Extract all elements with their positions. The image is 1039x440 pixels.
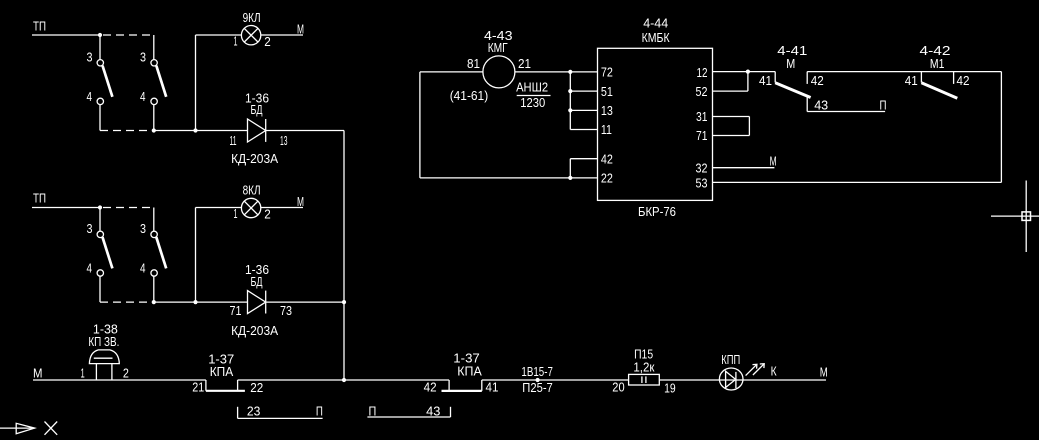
svg-text:ТП: ТП (33, 19, 46, 34)
svg-text:41: 41 (486, 379, 499, 394)
svg-text:П: П (880, 97, 887, 112)
contact 4-41 blade (775, 83, 810, 98)
wire lamp 9КЛ right lead to М (261, 34, 303, 36)
wire bottom contact to diode block2 (154, 301, 248, 303)
svg-text:81: 81 (467, 56, 480, 71)
svg-text:72: 72 (601, 65, 613, 80)
wire lamp 8КЛ right lead to М (261, 207, 303, 209)
svg-text:М: М (297, 194, 304, 209)
svg-text:М: М (297, 21, 304, 36)
wire contact S2 bottom lead (153, 105, 155, 131)
junction dot pin 72 (568, 70, 572, 74)
svg-text:КД-203А: КД-203А (231, 151, 278, 166)
svg-text:51: 51 (601, 84, 613, 99)
svg-text:4: 4 (140, 261, 146, 276)
wire terminal 43 tick (450, 407, 452, 417)
svg-text:1: 1 (234, 206, 238, 221)
svg-text:АНШ2: АНШ2 (516, 80, 548, 95)
svg-text:13: 13 (601, 103, 613, 118)
svg-text:БКР-76: БКР-76 (638, 204, 676, 219)
junction dot lamp branch bottom block2 (193, 300, 197, 304)
svg-text:БД: БД (251, 102, 263, 117)
svg-text:М: М (820, 365, 828, 380)
svg-text:БД: БД (251, 274, 263, 289)
wire dashed bottom between contacts block2 (100, 301, 151, 303)
svg-text:19: 19 (664, 380, 676, 395)
wire bottom contact to lamp branch node (154, 130, 248, 132)
svg-text:М1: М1 (930, 56, 945, 71)
junction dot node ТП1 (98, 33, 102, 37)
contact 4-42 terminal 41 tick (920, 72, 922, 83)
svg-text:(41-61): (41-61) (450, 88, 489, 103)
contact S2 terminal 4 circle (151, 98, 157, 104)
contact S1 blade (103, 66, 113, 97)
svg-text:2: 2 (123, 366, 129, 381)
svg-text:8КЛ: 8КЛ (243, 183, 261, 198)
contact S4 blade (156, 237, 166, 268)
svg-text:20: 20 (612, 380, 624, 395)
wire lamp 9КЛ left lead (196, 34, 242, 36)
wire top tie 42(4-41) to 42(4-42) (807, 71, 1001, 73)
svg-text:1,2к: 1,2к (633, 359, 654, 374)
contact КПА2 terminal 41 tick (481, 380, 483, 391)
wire 43 to П (807, 111, 885, 113)
contact S4 terminal 3 circle (151, 231, 157, 237)
svg-text:1: 1 (234, 33, 238, 48)
svg-text:22: 22 (601, 171, 613, 186)
svg-text:2: 2 (264, 34, 271, 49)
wire pin 53 long wire (713, 181, 1002, 183)
svg-text:41: 41 (759, 73, 772, 88)
svg-text:КП ЗВ.: КП ЗВ. (88, 334, 119, 349)
wire bottom bus segment 4 (659, 379, 826, 381)
cursor crosshair horizontal (991, 215, 1039, 217)
contact S4 terminal 4 circle (151, 270, 157, 276)
svg-text:КПА: КПА (457, 364, 482, 379)
contact 4-42 blade (921, 83, 957, 99)
wire dashed bottom between contacts block1 (100, 130, 151, 132)
svg-text:22: 22 (250, 380, 263, 395)
wire right vertical bus (x=344) upper (343, 131, 345, 303)
bell КП ЗВ right leg (111, 364, 113, 380)
svg-text:ТП: ТП (33, 191, 46, 206)
wire lamp 8КЛ branch vertical (195, 208, 197, 303)
svg-text:3: 3 (87, 221, 93, 236)
wire pin 11 stub (570, 129, 597, 131)
contact S1 terminal 4 circle (97, 98, 103, 104)
svg-text:21: 21 (518, 56, 531, 71)
contact S3 blade (103, 237, 113, 268)
wire right vertical bus (x=344) lower (343, 302, 345, 380)
contact КПА1 terminal 22 tick (237, 380, 239, 391)
contact S1 terminal 3 circle (97, 60, 103, 66)
svg-text:21: 21 (192, 379, 204, 394)
contact КПА1 bridge bar (206, 390, 245, 392)
diode БД1 КД-203А (248, 119, 266, 142)
wire pin 13 stub (570, 109, 597, 111)
svg-text:42: 42 (811, 73, 824, 88)
junction dot pin 12 branch (746, 70, 750, 74)
wire П to 43 (367, 416, 450, 418)
wire КМГ loop bottom to pin 22 (420, 177, 570, 179)
svg-text:43: 43 (426, 404, 440, 419)
junction dot bus at x=344 (342, 378, 346, 382)
svg-text:31: 31 (696, 109, 708, 124)
resistor П15 power mark (641, 376, 643, 383)
svg-text:32: 32 (696, 160, 708, 175)
wire left pin tie vertical (72-51-13-11) (569, 72, 571, 130)
wire ТП row 2 (32, 207, 100, 209)
wire bottom bus segment 3 (482, 379, 629, 381)
svg-text:1230: 1230 (520, 95, 545, 110)
svg-text:3: 3 (87, 50, 93, 65)
svg-text:П25-7: П25-7 (522, 380, 553, 395)
svg-text:71: 71 (230, 303, 242, 318)
wire pin 31 stub (713, 116, 750, 118)
svg-text:11: 11 (230, 133, 237, 148)
svg-text:4: 4 (140, 89, 146, 104)
wire contact S2 top lead (153, 35, 155, 60)
contact 4-41 terminal 42 tick (806, 72, 808, 84)
junction dot bus at 1В15-7 (536, 378, 540, 382)
contact S3 terminal 4 circle (97, 270, 103, 276)
wire pin tie vertical (42-22) (569, 159, 571, 178)
svg-text:42: 42 (424, 379, 437, 394)
wire КМГ loop left vertical (419, 72, 421, 178)
svg-text:4-44: 4-44 (643, 16, 668, 31)
wire pin 12/52 tie vertical (747, 72, 749, 92)
wire КМГ 81 left lead (420, 71, 483, 73)
wire contact S3 top lead (99, 208, 101, 232)
junction dot bottom contact block2 (152, 300, 156, 304)
wire pin 71 stub (713, 135, 750, 137)
wire bottom bus segment 2 (238, 379, 450, 381)
svg-text:3: 3 (140, 221, 146, 236)
wire contact S4 top lead (153, 208, 155, 232)
relay coil КМГ circle (483, 56, 515, 88)
junction dot pin 51 (568, 89, 572, 93)
junction dot bottom contact block1 (152, 128, 156, 132)
wire diode БД2 cathode to right vertical (266, 301, 344, 303)
svg-text:М: М (770, 153, 777, 168)
wire contact S1 bottom lead (99, 105, 101, 131)
fraction bar АНШ2/1230 (517, 95, 551, 97)
svg-text:КМГ: КМГ (488, 40, 508, 55)
svg-text:23: 23 (247, 404, 261, 419)
wire bottom bus segment 1 (33, 379, 206, 381)
svg-text:3: 3 (140, 50, 146, 65)
wire КМГ 21 right lead to box (515, 71, 598, 73)
junction dot lamp branch bottom block1 (193, 128, 197, 132)
contact 4-41 terminal 43 tick (806, 98, 808, 112)
svg-text:П: П (316, 404, 323, 419)
junction dot diode2 row at vertical (342, 300, 346, 304)
svg-text:М: М (786, 56, 795, 71)
wire pin 31/71 tie vertical (748, 117, 750, 136)
resistor П15 body (629, 374, 660, 385)
svg-text:13: 13 (280, 133, 288, 148)
svg-text:12: 12 (697, 65, 708, 80)
contact КПА1 terminal 21 tick (205, 380, 207, 391)
svg-text:КПА: КПА (210, 364, 234, 379)
svg-text:4: 4 (87, 261, 93, 276)
svg-text:71: 71 (696, 128, 708, 143)
wire pin 32 stub to М (713, 167, 775, 169)
LED КПП diode triangle (726, 371, 736, 387)
wire dashed ТП2 to contact 2 (103, 207, 154, 209)
LED КПП arrow 2 (753, 364, 764, 375)
block БКР-76 body (598, 48, 713, 200)
cursor crosshair vertical (1025, 181, 1027, 253)
wire pin 52 stub (713, 90, 748, 92)
LED КПП arrow 1 (746, 365, 757, 376)
svg-text:41: 41 (905, 73, 918, 88)
bell КП ЗВ left leg (95, 364, 97, 380)
svg-text:11: 11 (601, 122, 612, 137)
junction dot pin 22 (568, 176, 572, 180)
svg-text:КМБК: КМБК (642, 30, 670, 45)
junction dot node ТП2 (98, 205, 102, 209)
contact 4-42 terminal 42 tick (953, 72, 955, 84)
wire 23 to П (238, 417, 323, 419)
wire ТП row 1 (32, 34, 100, 36)
wire diode БД1 cathode to right vertical (266, 130, 344, 132)
svg-text:42: 42 (957, 73, 970, 88)
diode БД2 КД-203А (248, 291, 266, 314)
wire pin 12 to contact 4-41 terminal 41 (748, 71, 775, 73)
LED КПП diode bar (735, 372, 737, 388)
contact S2 blade (156, 66, 166, 97)
wire pin 22 stub (570, 177, 597, 179)
wire pin 42 stub (570, 158, 597, 160)
lamp 9КЛ (241, 26, 260, 45)
svg-text:П: П (369, 404, 377, 419)
bell КП ЗВ inner line (94, 357, 113, 359)
junction dot pin 13 (568, 108, 572, 112)
annotation arrow bottom-left (0, 427, 35, 429)
svg-text:9КЛ: 9КЛ (243, 10, 261, 25)
wire terminal 23 tick (237, 407, 239, 419)
svg-text:52: 52 (696, 84, 708, 99)
svg-text:2: 2 (264, 207, 271, 222)
svg-text:53: 53 (696, 175, 708, 190)
wire dashed ТП1 to contact 2 (103, 34, 154, 36)
svg-text:43: 43 (814, 97, 828, 112)
svg-text:1В15-7: 1В15-7 (521, 364, 553, 379)
wire lamp 8КЛ left lead (196, 207, 242, 209)
contact 4-41 terminal 41 tick (774, 72, 776, 83)
cursor pickbox (1022, 212, 1031, 221)
wire contact S4 bottom lead (153, 276, 155, 302)
LED КПП circle (719, 368, 743, 390)
wire right loop vertical (1000, 72, 1002, 183)
lamp 8КЛ (241, 198, 260, 217)
svg-text:1: 1 (81, 366, 85, 381)
svg-text:42: 42 (601, 151, 613, 166)
wire lamp 9КЛ branch vertical (195, 35, 197, 131)
svg-text:4: 4 (87, 89, 93, 104)
wire pin 51 stub (570, 90, 597, 92)
svg-text:М: М (33, 365, 43, 380)
wire pin 12 stub (713, 71, 748, 73)
svg-text:КПП: КПП (721, 352, 740, 367)
contact S3 terminal 3 circle (97, 231, 103, 237)
wire contact S3 bottom lead (99, 276, 101, 302)
contact КПА2 terminal 42 tick (448, 380, 450, 391)
svg-text:73: 73 (280, 303, 292, 318)
wire contact S1 top lead (99, 35, 101, 60)
annotation cross bottom-left (45, 422, 58, 435)
svg-text:КД-203А: КД-203А (231, 323, 278, 338)
bell КП ЗВ dome (89, 350, 119, 364)
contact КПА2 bridge bar (442, 390, 482, 392)
contact S2 terminal 3 circle (151, 60, 157, 66)
svg-text:К: К (771, 364, 777, 379)
